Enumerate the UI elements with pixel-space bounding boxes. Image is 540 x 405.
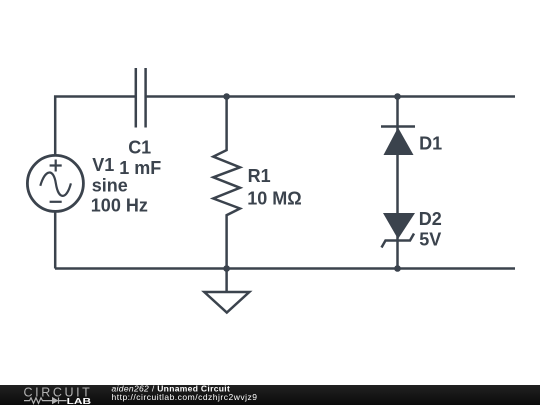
svg-text:D2: D2 [419, 209, 442, 229]
svg-text:sine: sine [92, 175, 128, 195]
svg-text:http://circuitlab.com/cdzhjrc2: http://circuitlab.com/cdzhjrc2wvjz9 [112, 392, 258, 402]
svg-text:R1: R1 [248, 166, 271, 186]
svg-text:V1: V1 [92, 155, 114, 175]
svg-text:C1: C1 [128, 137, 151, 157]
svg-text:LAB: LAB [67, 396, 92, 405]
svg-text:10 MΩ: 10 MΩ [247, 188, 301, 208]
svg-text:100 Hz: 100 Hz [91, 195, 148, 215]
svg-text:D1: D1 [419, 133, 442, 153]
svg-text:5V: 5V [419, 229, 441, 249]
